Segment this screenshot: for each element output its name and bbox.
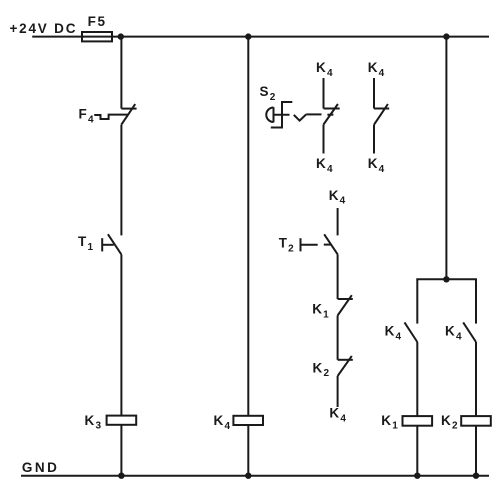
svg-text:S2: S2 [260, 84, 276, 103]
contact T2 (NO contact) [324, 234, 337, 254]
wire right-left branch lower [416, 342, 418, 416]
svg-text:K4: K4 [385, 324, 402, 343]
fuse F5 [82, 32, 112, 41]
wire left rail middle [120, 125, 122, 236]
svg-text:K4: K4 [368, 60, 385, 79]
wire middle rail [247, 37, 249, 416]
contact K4 (NO, right branch) [463, 322, 476, 342]
node junction GND left [118, 473, 124, 479]
svg-text:K2: K2 [313, 360, 330, 379]
svg-text:K3: K3 [85, 413, 102, 432]
contact K2 (NC) [338, 356, 353, 376]
wire right-right branch lower [475, 342, 477, 416]
wire top terminal of left K4 contact [323, 78, 325, 109]
mechanical link S2 to contact K4 [306, 113, 321, 115]
contact K4 (NC, operated by S2) [324, 104, 340, 125]
latch release check symbol [294, 114, 306, 120]
mechanical link F4 actuator [94, 115, 128, 119]
svg-text:F5: F5 [88, 14, 107, 29]
node junction top-right [443, 33, 449, 39]
wire middle rail to GND [247, 425, 249, 476]
wire right-right branch upper [475, 279, 477, 323]
node junction GND middle [245, 473, 251, 479]
wire chain T2 to K1 [337, 254, 339, 299]
mechanical link S2 stem [274, 114, 290, 116]
wire left rail lower [120, 255, 122, 416]
contact K4 (NO, left branch) [405, 322, 418, 342]
svg-text:K1: K1 [381, 413, 398, 432]
wire right splitter [416, 278, 477, 280]
wire top terminal of right K4 contact [373, 78, 375, 109]
wire bottom terminal of right K4 contact [373, 125, 375, 154]
svg-text:K4: K4 [214, 413, 231, 432]
wire chain K1 to K2 [337, 316, 339, 360]
wire bottom terminal of left K4 contact [323, 125, 325, 154]
wire right-left branch to GND [416, 426, 418, 476]
node junction GND right-left [414, 473, 420, 479]
mechanical link T2 actuator [301, 238, 331, 251]
svg-text:K1: K1 [312, 302, 329, 321]
wire GND bottom rail [21, 475, 489, 477]
svg-text:GND: GND [22, 460, 60, 475]
node junction top-middle [245, 33, 251, 39]
contact T1 (NO contact) [108, 234, 122, 254]
svg-text:K4: K4 [445, 324, 462, 343]
svg-text:K4: K4 [316, 156, 333, 175]
wire right-right branch to GND [475, 426, 477, 476]
svg-text:K4: K4 [329, 188, 346, 207]
node junction top-left [118, 33, 124, 39]
mechanical link T1 actuator [102, 238, 114, 251]
svg-text:+24V DC: +24V DC [10, 21, 78, 36]
wire right rail [445, 37, 447, 280]
wire +24V DC top rail [32, 36, 489, 38]
node junction right splitter [443, 276, 449, 282]
pushbutton S2 mushroom head [266, 107, 273, 122]
coil K1 [403, 416, 433, 426]
node junction GND right-right [473, 473, 479, 479]
wire right-left branch upper [416, 279, 418, 323]
contact K1 (NC) [338, 295, 353, 315]
wire left rail to GND [120, 425, 122, 476]
svg-text:K4: K4 [316, 60, 333, 79]
svg-text:K4: K4 [368, 156, 385, 175]
svg-text:K4: K4 [329, 406, 346, 425]
svg-text:T2: T2 [279, 236, 294, 255]
svg-text:F4: F4 [79, 107, 94, 126]
coil K4 [233, 416, 263, 425]
coil K2 [461, 416, 491, 426]
mechanical link tick on contact arm [327, 114, 333, 116]
wire left rail upper [120, 37, 122, 109]
svg-text:K2: K2 [441, 413, 458, 432]
wire chain bottom [337, 376, 339, 407]
contact K4 (NC, floating right) [374, 104, 389, 125]
svg-text:T1: T1 [78, 234, 93, 253]
contact F4 (NC thermal contact) [121, 104, 136, 125]
wire chain top [337, 208, 339, 235]
coil K3 [107, 416, 137, 425]
latch symbol S2 maintained detent [271, 102, 293, 128]
